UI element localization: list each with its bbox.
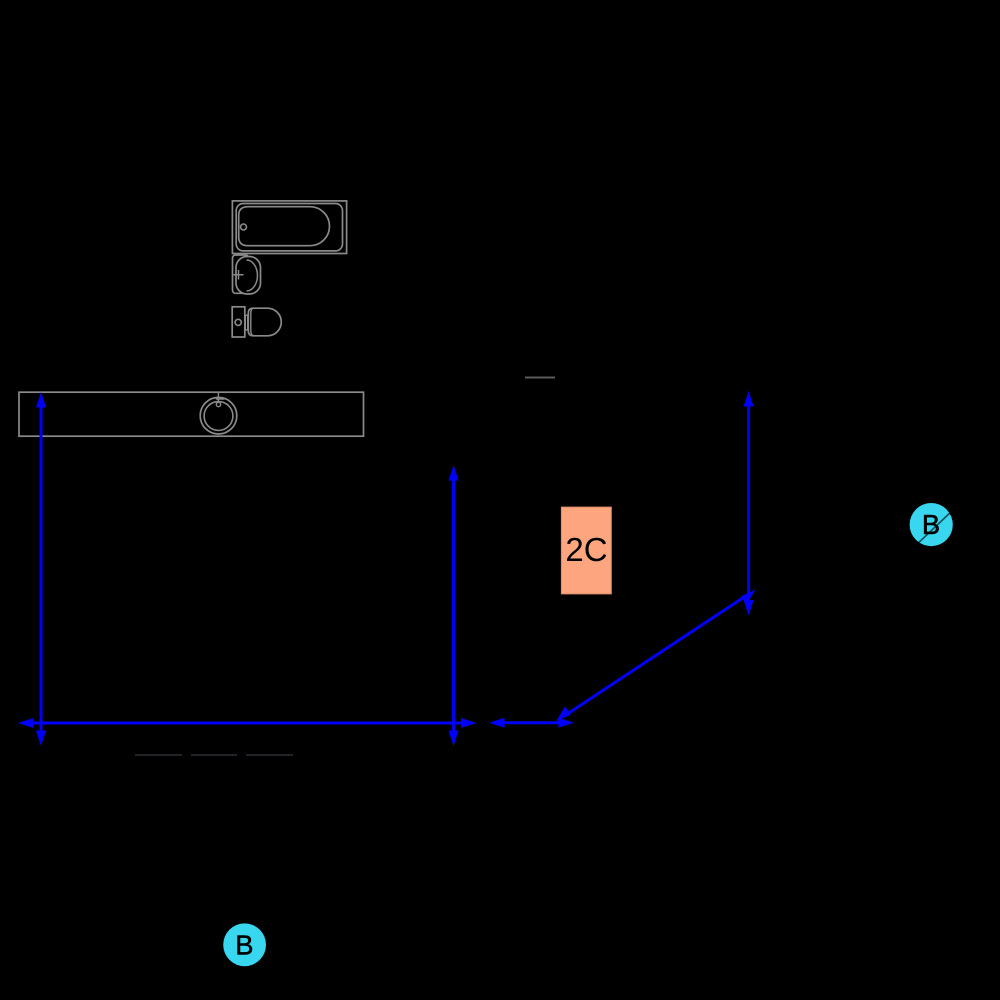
dimension arrow horizontal long [18, 718, 477, 728]
svg-text:B: B [922, 509, 940, 540]
B symbol right [910, 503, 953, 546]
B symbol bottom [223, 923, 266, 966]
vanity rect [19, 392, 364, 436]
dimension arrow horizontal short [489, 718, 574, 728]
bathtub outer rect [232, 201, 346, 254]
sink pedestal rect [233, 255, 249, 293]
bathtub drain [241, 224, 247, 230]
toilet seat inner arc [251, 308, 254, 336]
svg-text:2C: 2C [565, 531, 607, 568]
sink tap cross [234, 270, 244, 280]
dark dashed line [135, 754, 293, 756]
svg-text:B: B [235, 930, 253, 961]
dimension arrow vertical left [36, 392, 46, 746]
leader line across B right [913, 510, 953, 548]
dimension arrow vertical middle [449, 465, 459, 746]
toilet tank circle [235, 319, 241, 325]
bathtub rim [236, 204, 342, 251]
vanity tap dot [216, 402, 220, 406]
sink basin [236, 257, 261, 295]
toilet connector [245, 315, 247, 330]
bathtub basin [239, 207, 330, 246]
orange label box 2C [561, 507, 611, 594]
vanity tap tee [216, 393, 225, 403]
gray wall segment [525, 377, 555, 379]
vanity sink outer circle [200, 397, 237, 434]
toilet bowl [248, 308, 281, 336]
dimension arrow diagonal [556, 590, 756, 722]
sink basin inner arc [247, 260, 258, 291]
dimension arrow vertical right [744, 391, 754, 616]
toilet tank [232, 307, 245, 337]
vanity sink inner circle [204, 402, 233, 431]
